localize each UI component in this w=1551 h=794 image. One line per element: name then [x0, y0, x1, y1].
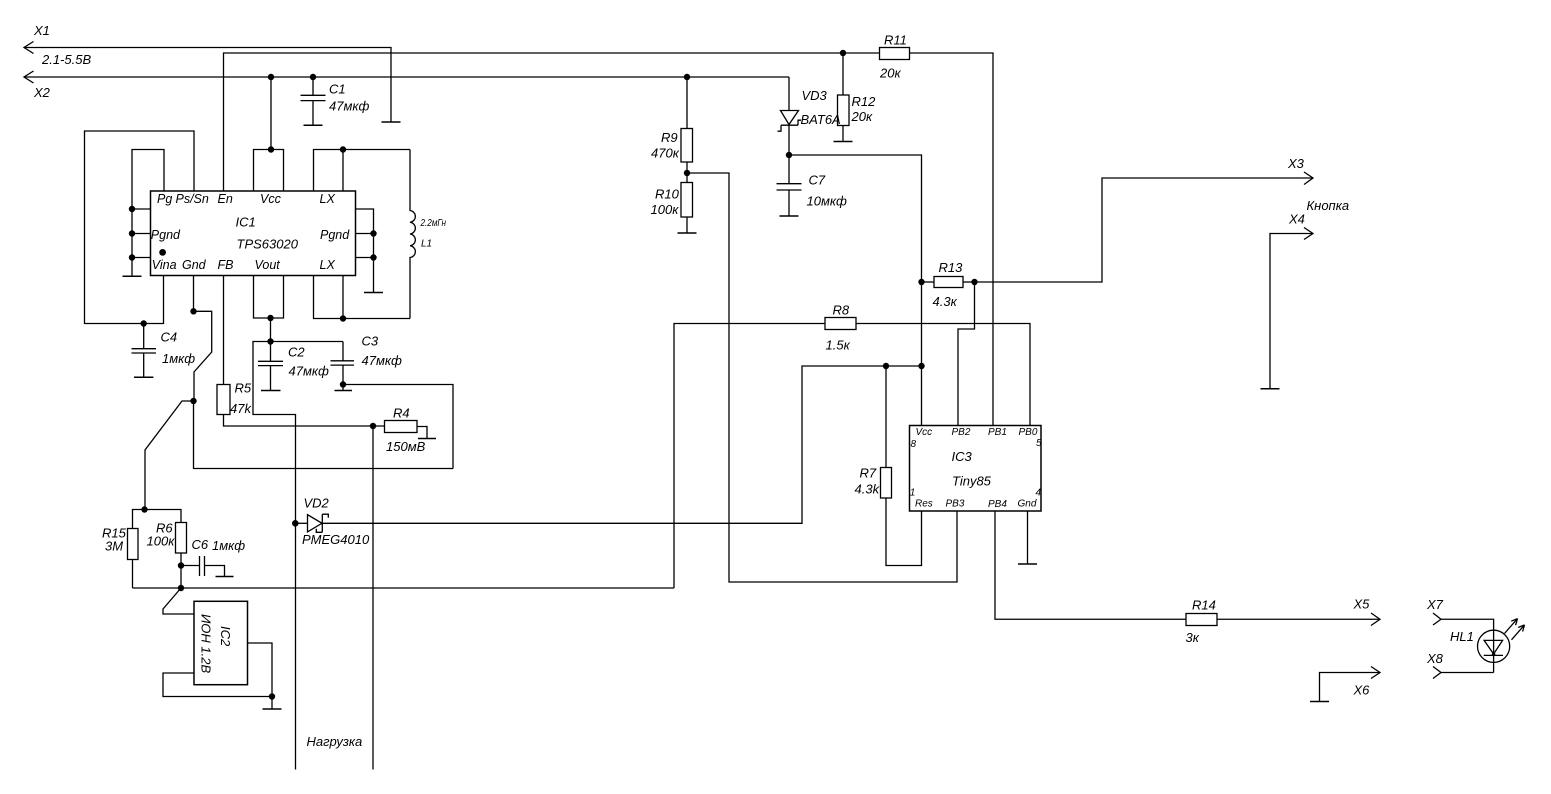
svg-text:4: 4 [1036, 488, 1042, 499]
wire Vout rail to load [253, 342, 343, 770]
LED arrows [1505, 619, 1518, 634]
svg-text:10мкф: 10мкф [807, 194, 848, 209]
wire IC3 Gnd pin [1027, 511, 1029, 564]
node X2/R9 junction [684, 74, 690, 80]
svg-text:PB4: PB4 [988, 499, 1007, 510]
svg-text:R10: R10 [655, 187, 680, 202]
svg-text:47мкф: 47мкф [329, 99, 370, 114]
wire R9-R10 [686, 162, 688, 183]
wire R11 right to PB1 [910, 53, 994, 426]
wire X4 to ground [1270, 234, 1313, 389]
node Vout junction [267, 315, 273, 321]
svg-text:PB3: PB3 [946, 499, 965, 510]
svg-text:X8: X8 [1426, 651, 1444, 666]
resistor R12 [842, 53, 844, 95]
svg-text:VD3: VD3 [802, 88, 828, 103]
ground C1 [304, 124, 323, 126]
wire X1 net [24, 48, 391, 123]
ground R12 [834, 141, 853, 143]
svg-text:Vcc: Vcc [916, 427, 933, 438]
inductor L1 [410, 150, 415, 319]
svg-text:1мкф: 1мкф [162, 351, 195, 366]
svg-text:R13: R13 [939, 260, 964, 275]
wire R7 bottom to Res [886, 498, 922, 566]
wire divider tap to PB3 [687, 173, 957, 582]
svg-text:IC1: IC1 [236, 215, 256, 230]
svg-text:1мкф: 1мкф [212, 538, 245, 553]
svg-text:3М: 3М [105, 539, 123, 554]
svg-text:R5: R5 [235, 381, 252, 396]
node R9/R10 junction [684, 170, 690, 176]
capacitor C3 [331, 342, 355, 391]
wire VD3 anode [788, 77, 790, 111]
IC2 box [194, 601, 248, 684]
wire LX top staple and rail to L1 [314, 150, 411, 192]
node Gnd lower junction [190, 398, 196, 404]
svg-text:Pgnd: Pgnd [151, 228, 181, 242]
connector X2 arrow [24, 71, 34, 83]
capacitor C6 [181, 556, 225, 577]
node VD2 anode junction [292, 520, 299, 527]
node C4 junction [141, 320, 147, 326]
resistor R11 [880, 48, 910, 60]
svg-text:X6: X6 [1353, 683, 1371, 698]
svg-text:X7: X7 [1426, 597, 1444, 612]
wire Pgnd right stubs [356, 209, 374, 293]
ground X1 [382, 121, 401, 123]
wire X6 to ground [1320, 673, 1381, 702]
node R13 right junction [971, 279, 977, 285]
wire R4 right [417, 427, 427, 439]
wire En net [224, 53, 880, 191]
node Vcc staple junction [268, 146, 274, 152]
connector X5 arrow [1371, 613, 1380, 626]
svg-text:R4: R4 [393, 406, 410, 421]
connector X3 arrow [1304, 172, 1313, 185]
svg-text:100к: 100к [147, 534, 176, 549]
svg-text:Ps/Sn: Ps/Sn [176, 192, 209, 206]
wire VD2 output rail [322, 366, 921, 523]
capacitor C7 [777, 184, 802, 216]
node VD3/C7 junction [786, 152, 792, 158]
wire load right drop [372, 426, 374, 770]
wire Vout staple [254, 276, 284, 342]
wire Pgnd left stubs [132, 209, 151, 258]
svg-text:C3: C3 [362, 334, 379, 349]
wire FB to R5 [223, 276, 225, 385]
svg-text:TPS63020: TPS63020 [237, 237, 299, 252]
node C3 bottom junction [340, 381, 346, 387]
svg-text:1: 1 [910, 488, 916, 499]
ground X6 [1310, 701, 1329, 703]
ground C2 [261, 390, 281, 392]
svg-text:X1: X1 [33, 23, 50, 38]
svg-text:Vina: Vina [152, 258, 177, 272]
resistor R6 [176, 523, 187, 554]
wire R13 to PB2 [958, 282, 975, 426]
wire Vcc feed [270, 77, 272, 150]
node R6/rail junction [178, 585, 184, 591]
svg-text:R14: R14 [1192, 598, 1216, 613]
svg-text:R8: R8 [833, 303, 850, 318]
wire R6 bottom [180, 553, 182, 588]
resistor R15 [128, 529, 139, 560]
resistor R10 [681, 183, 693, 218]
resistor R14 [1186, 614, 1217, 626]
svg-text:R7: R7 [860, 466, 877, 481]
node R13 left junction [918, 279, 924, 285]
svg-text:HL1: HL1 [1450, 629, 1474, 644]
svg-text:R12: R12 [852, 94, 877, 109]
svg-text:Vout: Vout [255, 258, 281, 272]
wire long battery rail [133, 587, 675, 589]
svg-text:47мкф: 47мкф [289, 364, 330, 379]
wire gnd rail bottom [194, 401, 454, 469]
wire X7 to LED [1441, 619, 1494, 672]
wire Vcc staple IC1 [254, 150, 284, 192]
svg-text:20к: 20к [879, 66, 901, 81]
node IC2 ground junction [269, 693, 275, 699]
ground C7 [780, 215, 799, 217]
svg-text:150мВ: 150мВ [386, 439, 426, 454]
capacitor C4 [132, 324, 157, 378]
svg-text:1.5к: 1.5к [826, 338, 851, 353]
svg-text:4.3к: 4.3к [933, 294, 958, 309]
svg-text:20к: 20к [851, 109, 873, 124]
IC3 box [910, 426, 1042, 512]
svg-text:C2: C2 [288, 345, 305, 360]
ground C4 [134, 376, 153, 378]
wire C7 node to Vcc IC3 [789, 155, 922, 426]
wire R13 right [963, 281, 975, 283]
wire R8 net [674, 324, 825, 589]
wire IC2 right pin [248, 643, 273, 697]
node Pgnd right junctions [370, 230, 376, 236]
svg-text:Кнопка: Кнопка [1307, 198, 1350, 213]
wire R10 bottom [686, 217, 688, 233]
ground X4 [1261, 388, 1280, 390]
wire R13 to X3 [975, 178, 1314, 282]
svg-text:3к: 3к [1186, 630, 1200, 645]
svg-text:PMEG4010: PMEG4010 [302, 532, 370, 547]
connector X1 arrow [24, 42, 34, 54]
svg-text:4.3k: 4.3k [855, 482, 881, 497]
svg-text:LX: LX [320, 258, 336, 272]
capacitor C2 [258, 342, 283, 391]
node Vcc rail junction [918, 363, 924, 369]
svg-text:IC2: IC2 [218, 626, 233, 647]
wire R14 to X5 [1217, 618, 1380, 620]
wire R5 bottom to R4 [224, 415, 385, 427]
wire X2 net [24, 76, 789, 78]
svg-text:R9: R9 [661, 130, 678, 145]
ground Pgnd right [364, 292, 383, 294]
svg-text:Vcc: Vcc [260, 192, 282, 206]
node Vout rail junction [267, 338, 273, 344]
ground C3 [335, 390, 353, 392]
node En/R12 junction [840, 50, 846, 56]
wire C3 bottom to gnd rail [343, 385, 453, 469]
svg-text:PB2: PB2 [952, 427, 971, 438]
resistor R9 [681, 129, 693, 163]
svg-text:47k: 47k [230, 401, 252, 416]
svg-text:R11: R11 [884, 33, 907, 48]
wire Ps/Sn loop to Vina [85, 131, 195, 324]
diode VD2 PMEG4010 [295, 522, 307, 524]
resistor R4 [385, 421, 418, 433]
IC1 box [151, 191, 356, 276]
connector X6 arrow [1371, 667, 1380, 679]
wire IC2 bottom loop [163, 673, 272, 697]
node LX top junction [340, 146, 346, 152]
ground R10 [678, 232, 697, 234]
svg-text:Pg: Pg [157, 192, 172, 206]
node Pgnd left junctions [129, 206, 135, 212]
svg-text:X2: X2 [33, 85, 51, 100]
ground IC3 [1018, 563, 1037, 565]
wire VD3 cathode to C7 [788, 125, 790, 183]
svg-text:Gnd: Gnd [1018, 499, 1037, 510]
resistor R7 [885, 366, 887, 468]
node X2/C1 junction [310, 74, 316, 80]
svg-text:PB1: PB1 [988, 427, 1007, 438]
svg-text:100к: 100к [651, 202, 680, 217]
svg-text:ИОН 1.2В: ИОН 1.2В [199, 614, 214, 673]
svg-text:Tiny85: Tiny85 [952, 474, 992, 489]
wire gnd diagonal to R15/R6 [145, 401, 194, 510]
ground IC2 [271, 697, 273, 710]
wire Gnd pin jog [194, 276, 212, 401]
svg-text:2.1-5.5B: 2.1-5.5B [41, 52, 91, 67]
svg-text:470к: 470к [651, 146, 680, 161]
node X2/Vcc junction [268, 74, 274, 80]
resistor R13 [922, 281, 935, 283]
svg-text:IC3: IC3 [952, 449, 973, 464]
node C6 junction [178, 562, 184, 568]
wire X8 to LED [1441, 672, 1494, 674]
ground R4 [418, 438, 436, 440]
svg-text:Gnd: Gnd [182, 258, 207, 272]
svg-text:X5: X5 [1353, 597, 1371, 612]
wire R8 right to PB0 [856, 324, 1030, 426]
svg-text:LX: LX [320, 192, 336, 206]
svg-text:En: En [218, 192, 233, 206]
svg-text:FB: FB [218, 258, 234, 272]
svg-text:C7: C7 [809, 173, 826, 188]
wire R12 bottom [842, 126, 844, 142]
capacitor C1 [301, 77, 326, 125]
svg-text:Нагрузка: Нагрузка [307, 734, 363, 749]
svg-text:C6: C6 [192, 537, 209, 552]
svg-text:2.2мГн: 2.2мГн [420, 218, 447, 229]
ground C6 [216, 576, 234, 578]
svg-text:X4: X4 [1288, 212, 1305, 227]
wire LX bottom staple [314, 276, 411, 319]
svg-text:47мкф: 47мкф [362, 353, 403, 368]
wire PB4 to R14 [995, 511, 1186, 619]
svg-text:8: 8 [911, 439, 917, 450]
svg-text:BAT6A: BAT6A [801, 112, 841, 127]
svg-text:C4: C4 [161, 330, 178, 345]
resistor R8 [825, 318, 856, 330]
svg-text:5: 5 [1036, 438, 1042, 449]
svg-text:C1: C1 [329, 82, 346, 97]
svg-text:Res: Res [915, 499, 933, 510]
node stray dot inside IC1 [159, 249, 166, 256]
ground IC1 left [123, 275, 142, 277]
svg-text:VD2: VD2 [304, 496, 330, 511]
svg-text:PB0: PB0 [1019, 427, 1038, 438]
diode VD3 BAT6A [781, 111, 799, 125]
wire Pg loop left [132, 150, 164, 277]
wire rail to IC2 pin1 [163, 588, 194, 614]
node R4 left junction [370, 423, 376, 429]
svg-text:X3: X3 [1287, 156, 1305, 171]
wire R15 top loop [133, 510, 182, 589]
node LX bottom junction [340, 315, 346, 321]
wire R9 top [686, 77, 688, 129]
svg-text:L1: L1 [421, 239, 432, 250]
node R15/R6 top junction [141, 506, 147, 512]
node R7 top junction [883, 363, 889, 369]
svg-text:Pgnd: Pgnd [320, 228, 350, 242]
resistor R5 [217, 385, 230, 415]
node Gnd pin junction [190, 308, 196, 314]
